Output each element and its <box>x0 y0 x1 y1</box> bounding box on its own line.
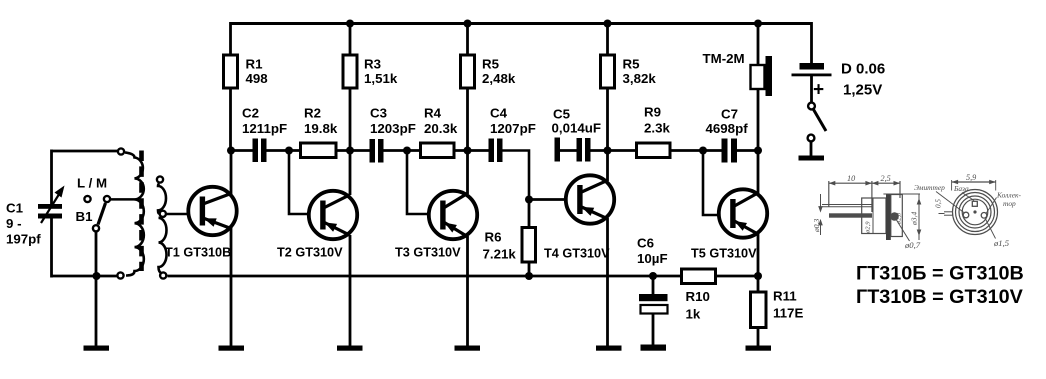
capacitor C4 <box>489 139 503 163</box>
svg-text:2,48k: 2,48k <box>482 71 516 86</box>
wire T2 emitter to ground <box>349 235 352 347</box>
svg-text:2.3k: 2.3k <box>644 121 670 136</box>
svg-text:T4 GT310V: T4 GT310V <box>544 247 610 261</box>
transistor T2 <box>309 191 357 239</box>
wire T3 emitter to ground <box>466 236 469 347</box>
transistor T4 <box>566 175 614 223</box>
label T1 type <box>165 246 231 260</box>
node transformer primary bottom terminal <box>117 272 123 278</box>
svg-text:База: База <box>953 184 969 193</box>
wire T3 collector <box>466 151 469 195</box>
wire C7 right segment <box>737 149 758 152</box>
capacitor C1 variable <box>38 186 65 224</box>
svg-text:R4: R4 <box>424 106 442 121</box>
svg-text:R5: R5 <box>482 57 500 72</box>
resistor R1 <box>224 55 238 88</box>
svg-text:ГТ310В = GT310V: ГТ310В = GT310V <box>856 286 1024 308</box>
svg-text:C5: C5 <box>553 107 571 122</box>
svg-text:R11: R11 <box>773 289 797 304</box>
ground T4 emitter <box>596 346 622 351</box>
wire C2 left segment <box>231 149 254 152</box>
capacitor C5 open terminal bar <box>555 138 561 162</box>
wire R1 column lower <box>229 90 232 151</box>
svg-text:1,51k: 1,51k <box>364 71 398 86</box>
wire C3-R4 segment <box>383 149 421 152</box>
battery D 0.06 1,25V <box>792 63 832 76</box>
inductor transformer primary winding <box>125 153 144 276</box>
label R6 value <box>483 230 517 262</box>
svg-text:ø0,3: ø0,3 <box>812 219 821 233</box>
ground R11 <box>746 346 772 351</box>
svg-text:R5: R5 <box>623 57 641 72</box>
label R2 value <box>304 106 338 137</box>
svg-text:9 -: 9 - <box>6 216 22 231</box>
wire B1 to lower rail and ground <box>95 231 98 347</box>
svg-text:R2: R2 <box>304 106 321 121</box>
wire C5 stub <box>560 149 578 152</box>
label R3 value <box>364 57 398 87</box>
node dot lower rail / B1 <box>93 272 101 280</box>
label R9 value <box>644 105 670 136</box>
ground B1 column <box>84 346 110 351</box>
ground T1 emitter <box>219 346 245 351</box>
wire lower rail right part <box>715 275 758 278</box>
wire C1 column lower <box>50 218 53 278</box>
svg-text:T5 GT310V: T5 GT310V <box>691 247 757 261</box>
svg-text:C3: C3 <box>370 106 387 121</box>
wire R1 column upper <box>229 22 232 55</box>
svg-text:TM-2M: TM-2M <box>703 51 745 66</box>
wire R11 lower <box>757 327 760 347</box>
svg-text:ø0,7: ø0,7 <box>904 240 921 250</box>
svg-text:1,25V: 1,25V <box>843 82 882 99</box>
svg-text:R9: R9 <box>644 105 661 120</box>
svg-text:L / M: L / M <box>77 176 107 191</box>
svg-text:3,82k: 3,82k <box>623 71 657 86</box>
node dot R4/C4/R5/T3-collector <box>464 147 472 155</box>
svg-text:ø2,9: ø2,9 <box>865 221 872 234</box>
svg-text:7.21k: 7.21k <box>483 247 517 262</box>
resistor R5 2,48k <box>461 55 475 88</box>
wire R5 column upper <box>466 22 469 55</box>
switch power arm <box>814 110 827 132</box>
svg-text:T3 GT310V: T3 GT310V <box>395 246 461 260</box>
svg-text:Эмиттер: Эмиттер <box>914 183 945 192</box>
wire R5 3,82k column lower <box>606 90 609 151</box>
node top rail dot above R5 3,82k <box>604 20 612 28</box>
wire top supply rail <box>230 22 812 25</box>
capacitor C3 <box>370 139 384 163</box>
battery plus sign <box>813 80 824 101</box>
label D 0.06 <box>841 61 885 78</box>
label L / M <box>77 176 107 191</box>
node dot lower rail / R6 <box>525 272 533 280</box>
node dot C3/R4/T3-base <box>403 147 411 155</box>
svg-text:4698pf: 4698pf <box>706 121 749 136</box>
wire T1 base <box>166 213 189 216</box>
wire T1 collector <box>230 151 233 195</box>
node dot lower rail / C6 <box>649 272 657 280</box>
label C1 value <box>6 201 41 247</box>
label C2 value <box>242 106 287 137</box>
wire C2-R2 segment <box>266 149 302 152</box>
wire C1 top wire <box>52 150 119 153</box>
label R11 value <box>773 289 803 321</box>
svg-text:C7: C7 <box>721 107 738 122</box>
node dot lower rail / T5 emitter / R11 <box>754 272 762 280</box>
resistor R10 <box>682 269 716 284</box>
label T3 type <box>395 246 461 260</box>
svg-text:B1: B1 <box>76 209 94 224</box>
resistor R2 <box>301 143 337 158</box>
wire lower rail left part <box>52 275 118 278</box>
svg-text:ø1,5: ø1,5 <box>993 238 1010 248</box>
wire C6 upper <box>652 276 655 295</box>
inductor transformer secondary winding <box>158 184 167 274</box>
earphone TM-2M <box>751 56 773 96</box>
wire T2 base L-wire <box>289 151 308 215</box>
transformer core <box>139 151 144 272</box>
wire T5 base L-wire <box>703 151 719 216</box>
svg-text:R1: R1 <box>246 57 264 72</box>
capacitor C7 <box>722 139 738 163</box>
capacitor C6 <box>639 294 668 314</box>
label GT310V equivalence <box>856 286 1024 308</box>
svg-text:R10: R10 <box>686 289 710 304</box>
node transformer secondary tap terminal <box>160 211 166 217</box>
wire R5 column lower <box>466 90 469 151</box>
resistor R11 <box>751 292 767 328</box>
wire battery column <box>810 22 813 64</box>
wire switch to ground <box>810 142 813 157</box>
label C6 value <box>637 236 668 267</box>
svg-text:197pf: 197pf <box>6 232 41 247</box>
wire T4 collector <box>606 151 609 182</box>
wire T1 emitter to ground <box>230 228 233 347</box>
wire R6 upper <box>528 200 531 229</box>
wire C5-R9 segment <box>590 149 637 152</box>
wire R4-C4 segment <box>453 149 490 152</box>
capacitor C5 <box>577 138 591 162</box>
svg-text:10: 10 <box>847 174 855 183</box>
resistor R5 3,82k <box>601 55 615 88</box>
svg-text:1203pF: 1203pF <box>370 121 416 136</box>
svg-text:20.3k: 20.3k <box>424 121 458 136</box>
wire R11 upper <box>757 276 760 293</box>
resistor R3 <box>343 55 357 88</box>
wire transformer primary tap <box>111 198 135 201</box>
label T2 type <box>277 246 343 260</box>
label 1,25V <box>843 82 882 99</box>
svg-text:5,9: 5,9 <box>966 173 976 182</box>
ground T2 emitter <box>337 346 363 351</box>
node dot C5/R9/R5b/T4-collector <box>604 147 612 155</box>
wire R2-C3 segment <box>336 149 372 152</box>
label T5 type <box>691 247 757 261</box>
node dot C2/R2/T2-base <box>285 147 293 155</box>
node dot R1/C2/T1-collector <box>227 147 235 155</box>
transistor T5 <box>719 189 767 237</box>
label GT310B equivalence <box>856 263 1024 285</box>
technical drawing transistor package <box>812 173 1022 250</box>
svg-text:ø3,4: ø3,4 <box>910 212 919 226</box>
svg-text:T1 GT310B: T1 GT310B <box>165 246 231 260</box>
wire R9-C7 segment <box>669 149 723 152</box>
wire T4 base segment <box>529 198 565 201</box>
switch B1 right contact <box>104 196 110 202</box>
wire battery to switch <box>810 76 813 103</box>
switch power lower contact <box>808 135 815 142</box>
svg-text:R3: R3 <box>364 57 381 72</box>
label B1 <box>76 209 94 224</box>
label TM-2M <box>703 51 745 66</box>
node transformer primary top terminal <box>118 148 124 154</box>
svg-text:C1: C1 <box>6 201 24 216</box>
svg-text:D 0.06: D 0.06 <box>841 61 885 78</box>
capacitor C2 <box>253 139 267 163</box>
wire R5 3,82k column upper <box>606 22 609 55</box>
label C7 value <box>706 107 749 137</box>
label R5b value <box>623 57 657 87</box>
wire T3 base L-wire <box>407 151 428 215</box>
wire R3 column upper <box>349 22 352 55</box>
svg-text:0,5: 0,5 <box>935 199 943 208</box>
svg-text:+: + <box>813 80 824 101</box>
wire TM-2M column upper <box>757 22 760 66</box>
node dot C7/TM-2M/T5-collector <box>754 147 762 155</box>
wire lower rail middle part <box>168 275 683 278</box>
svg-text:ГТ310Б = GT310B: ГТ310Б = GT310B <box>856 263 1024 285</box>
svg-text:498: 498 <box>246 71 268 86</box>
svg-text:ø2,8: ø2,8 <box>896 212 903 225</box>
svg-text:10µF: 10µF <box>637 251 668 266</box>
label R1 value <box>246 57 268 87</box>
svg-text:117E: 117E <box>773 306 803 321</box>
wire T5 collector <box>757 151 760 194</box>
node dot R9/C7/T5-base <box>699 147 707 155</box>
wire T2 collector <box>349 151 352 196</box>
node top rail dot above TM-2M <box>754 20 762 28</box>
resistor R9 <box>637 143 671 158</box>
node transformer secondary top terminal <box>157 176 163 182</box>
label R10 value <box>686 289 710 322</box>
svg-text:C2: C2 <box>242 106 259 121</box>
svg-text:1211pF: 1211pF <box>242 121 287 136</box>
wire C1 column upper <box>50 150 53 205</box>
switch B1 arm <box>98 203 106 225</box>
ground battery switch <box>799 156 825 161</box>
wire R3 column lower <box>349 90 352 151</box>
wire C6 lower <box>652 313 655 347</box>
transistor T3 <box>429 191 477 239</box>
node dot T4 base / R6 top <box>525 196 533 204</box>
svg-text:1207pF: 1207pF <box>490 121 536 136</box>
svg-text:0,014uF: 0,014uF <box>552 121 602 136</box>
svg-text:19.8k: 19.8k <box>304 121 338 136</box>
wire T4 emitter to ground <box>606 218 609 347</box>
svg-text:2,5: 2,5 <box>881 174 891 183</box>
node transformer secondary bottom terminal <box>160 272 166 278</box>
svg-text:C4: C4 <box>490 106 508 121</box>
label R4 value <box>424 106 458 137</box>
switch B1 left contact <box>84 196 90 202</box>
ground C6 <box>641 345 667 351</box>
wire C4 to T4 base corner <box>502 151 529 200</box>
resistor R6 <box>522 228 536 263</box>
label C3 value <box>370 106 416 137</box>
transistor T1 <box>188 187 236 235</box>
resistor R4 <box>421 143 455 158</box>
wire T5 emitter <box>757 234 760 277</box>
wire R6 lower <box>528 262 531 277</box>
node top rail dot above R5 2,48k <box>464 20 472 28</box>
svg-text:C6: C6 <box>637 236 654 251</box>
switch B1 pole contact <box>93 225 99 231</box>
label C4 value <box>490 106 536 137</box>
label T4 type <box>544 247 610 261</box>
ground T3 emitter <box>455 346 481 351</box>
svg-text:тор: тор <box>1003 199 1016 208</box>
svg-text:1k: 1k <box>686 307 701 322</box>
node dot R2/C3/R3/T2-collector <box>346 147 354 155</box>
svg-text:T2 GT310V: T2 GT310V <box>277 246 343 260</box>
wire TM-2M column lower <box>757 89 760 151</box>
svg-text:R6: R6 <box>485 230 502 245</box>
switch power upper contact <box>808 103 815 110</box>
node top rail dot above R3 <box>346 20 354 28</box>
label R5 value <box>482 57 516 87</box>
label C5 value <box>552 107 602 136</box>
